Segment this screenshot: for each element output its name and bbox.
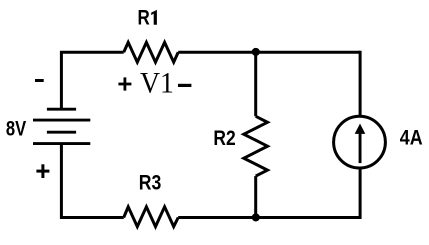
wire bottom: R3 to bottom-right corner (178, 216, 360, 219)
wire bottom-left: battery bottom to bottom wire (61, 144, 123, 218)
V1 minus sign (178, 84, 191, 87)
wire top: R1 to top-right corner (178, 51, 360, 54)
wire top-left: battery top to top wire (61, 52, 123, 110)
resistor R3 (124, 207, 179, 227)
resistor R1 (124, 42, 179, 62)
node B junction dot (bottom) (252, 213, 260, 221)
wire right upper: corner to current source (359, 51, 362, 115)
svg-text:8V: 8V (6, 118, 27, 141)
battery plate long bottom (positive) (33, 142, 90, 145)
wire middle upper: node A to R2 (254, 52, 257, 116)
svg-text:R3: R3 (139, 171, 162, 195)
node A junction dot (top) (252, 48, 260, 56)
svg-text:4A: 4A (400, 126, 423, 150)
svg-text:R2: R2 (213, 127, 235, 150)
battery plus sign (36, 164, 49, 178)
label R1 digit 1 (151, 10, 157, 25)
battery plate short top (negative) (47, 108, 76, 111)
battery plate long (positive) (33, 119, 90, 122)
V1 plus sign (118, 77, 131, 90)
current source U1 circle (334, 116, 386, 168)
battery V_s plates (33, 109, 90, 143)
resistor R2 (244, 116, 268, 176)
svg-text:R: R (137, 7, 149, 30)
current source arrow (355, 124, 366, 164)
wire middle lower: R2 to node B (254, 176, 257, 217)
battery minus sign (35, 79, 44, 82)
wire right lower: current source to corner (359, 169, 362, 219)
svg-text:V1: V1 (140, 67, 174, 100)
battery plate short (negative) (47, 131, 76, 134)
